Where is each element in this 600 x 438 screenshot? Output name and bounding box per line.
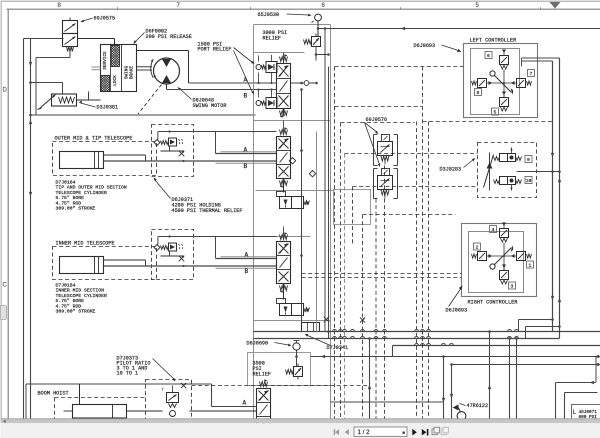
- dashed vline x422: [422, 67, 424, 421]
- svg-text:69J0575: 69J0575: [94, 16, 116, 22]
- flow arrow down 2: [29, 192, 32, 197]
- bus line y345: [393, 345, 600, 347]
- scrollbar left arrow: [3, 420, 6, 423]
- label OUTER MID & TIP TELESCOPE: [55, 136, 133, 142]
- svg-text:5.75" BORE: 5.75" BORE: [56, 298, 85, 304]
- revision triangle marker: [550, 2, 561, 9]
- wire vline x443: [442, 355, 445, 420]
- wire vline x301: [300, 90, 303, 323]
- valve D3J0283 upper: [494, 154, 522, 162]
- D3J0283 lever: [484, 153, 494, 191]
- dashed hline y122: [341, 122, 415, 124]
- hatch service: [90, 46, 161, 67]
- dashed vline x375: [375, 199, 377, 421]
- label INNER MID TELESCOPE: [56, 241, 115, 247]
- arrow down x552 b: [551, 296, 554, 301]
- wire D3J0283 out: [517, 170, 561, 173]
- wire vline x451: [450, 363, 453, 420]
- svg-text:LEFT CONTROLLER: LEFT CONTROLLER: [470, 38, 517, 44]
- svg-text:5.75" BORE: 5.75" BORE: [56, 195, 85, 201]
- swing brake body: [101, 45, 137, 92]
- svg-text:PORT RELIEF: PORT RELIEF: [198, 47, 232, 53]
- grey pair tele2 B: [216, 267, 277, 269]
- svg-text:D7J0184: D7J0184: [56, 283, 76, 289]
- wire boom A: [212, 406, 257, 408]
- viewer left edge line: [0, 2, 2, 419]
- svg-text:1 / 2: 1 / 2: [358, 429, 371, 436]
- dashed box boom: [55, 398, 146, 421]
- wire brake to motor: [137, 67, 153, 70]
- svg-text:BOOM HOIST: BOOM HOIST: [38, 391, 69, 397]
- boom holding valve D7J0373: [162, 383, 187, 417]
- wire nested corner 1: [556, 381, 596, 421]
- drawing frame left border: [7, 9, 9, 418]
- zone number 8: [58, 3, 62, 9]
- svg-text:65J0530: 65J0530: [258, 12, 280, 18]
- svg-text:D6J0693: D6J0693: [446, 308, 468, 314]
- svg-text:INNER MID SECTION: INNER MID SECTION: [56, 288, 105, 294]
- arrow down x552: [551, 153, 554, 158]
- label LEFT CONTROLLER: [470, 38, 517, 44]
- svg-text:5: 5: [494, 110, 497, 116]
- svg-text:1: 1: [529, 263, 532, 269]
- port box 1: [527, 261, 534, 269]
- toolbar last button: [422, 429, 429, 436]
- dashed hline y153: [345, 153, 478, 155]
- bracket 69J0576 upper: [374, 135, 398, 166]
- svg-text:A: A: [244, 147, 248, 154]
- svg-text:TELESCOPE CYLINDER: TELESCOPE CYLINDER: [56, 190, 107, 196]
- svg-text:TIP AND OUTER MID SECTION: TIP AND OUTER MID SECTION: [56, 185, 127, 191]
- left controller inner box: [471, 49, 520, 115]
- wire hline y54: [315, 53, 330, 56]
- wire D3J0381 to brake: [77, 92, 101, 101]
- label B swing: [244, 93, 248, 100]
- label D6J0690: [247, 341, 292, 347]
- port box 10: [525, 177, 532, 185]
- wire brake right to A: [137, 51, 189, 84]
- relief box: [254, 52, 305, 54]
- wire tele1 B line: [104, 160, 277, 162]
- label 69J0575: [81, 16, 116, 23]
- wire hline y401: [331, 401, 444, 403]
- wire y364: [452, 363, 600, 366]
- bus line y338: [254, 338, 560, 340]
- holding valve D6J0371 upper: [154, 138, 183, 146]
- label A swing: [244, 77, 248, 84]
- wire tank return y114: [29, 114, 255, 117]
- label D3J0283: [440, 158, 476, 173]
- svg-text:10: 10: [526, 178, 532, 184]
- svg-text:B: B: [244, 93, 248, 100]
- label B tele2: [245, 268, 249, 275]
- wire tele2 A line: [216, 258, 277, 260]
- wire y356 far right: [444, 356, 600, 358]
- wire boom top line: [26, 384, 212, 407]
- wire vline x369: [368, 337, 371, 420]
- wire vline x516: [515, 337, 518, 420]
- flow arrow up: [29, 120, 32, 125]
- label 1500 PSI PORT RELIEF: [198, 42, 255, 95]
- zone number 6: [322, 3, 326, 9]
- line hop marks: [333, 330, 519, 346]
- svg-text:SWING MOTOR: SWING MOTOR: [193, 103, 227, 109]
- valve bank section line y236: [254, 236, 311, 238]
- port box 8: [475, 89, 482, 97]
- wire valve to brake: [70, 39, 115, 58]
- valve 69J0575: [63, 18, 78, 56]
- dashed box holding valve 1: [152, 125, 194, 177]
- wire gauge down: [317, 21, 320, 37]
- svg-text:47R6122: 47R6122: [467, 403, 489, 409]
- wire rc to bus: [519, 318, 561, 338]
- wire vline x324: [324, 27, 327, 331]
- svg-text:D3J0283: D3J0283: [440, 167, 462, 173]
- dashed vline x362: [362, 215, 364, 421]
- holding valve D6J0371 lower: [154, 243, 183, 251]
- X mark tele1: [179, 151, 185, 157]
- svg-text:RIGHT CONTROLLER: RIGHT CONTROLLER: [468, 300, 518, 306]
- dashed hline y385 boom pilot: [192, 385, 370, 387]
- wire boom rod line: [127, 410, 257, 412]
- port box 6: [485, 52, 492, 60]
- wire swing spool links: [282, 53, 285, 117]
- wire to D3J0381: [31, 83, 63, 94]
- label D6J0371: [154, 178, 243, 215]
- svg-text:6: 6: [487, 53, 490, 59]
- label B tele1: [244, 163, 248, 170]
- svg-text:RELIEF: RELIEF: [263, 35, 282, 41]
- cylinder D7J0184 inner: [60, 257, 146, 274]
- cylinder boom: [64, 405, 127, 419]
- pilot check block 2: [277, 299, 310, 316]
- wire vline x552: [552, 61, 554, 332]
- label SERVICE: [103, 51, 108, 70]
- pilot check block 1: [277, 192, 310, 209]
- wire 3500 line y356: [311, 355, 393, 358]
- wire left vertical line x23: [23, 39, 25, 419]
- right controller inner box: [469, 232, 524, 293]
- label D6J0693 left: [414, 43, 462, 52]
- dashed box D3J0283: [478, 143, 537, 198]
- anchor symbol 47R6122: [453, 405, 466, 421]
- arrow up x559 b: [558, 298, 561, 303]
- port box 3: [509, 282, 516, 290]
- port box 9: [525, 156, 532, 164]
- wire D6J0690 down: [295, 350, 298, 366]
- svg-text:309.00" STROKE: 309.00" STROKE: [56, 309, 96, 315]
- svg-text:3: 3: [511, 284, 514, 290]
- svg-text:B: B: [245, 268, 249, 275]
- X mark tele2: [179, 256, 185, 262]
- svg-text:200 PSI RELEASE: 200 PSI RELEASE: [146, 34, 192, 40]
- wire left vertical line x30: [30, 39, 32, 419]
- dashed hline y186: [353, 186, 478, 188]
- grey box mid: [334, 190, 371, 225]
- svg-text:RELIEF: RELIEF: [253, 372, 272, 378]
- wire vline x328: [327, 67, 330, 339]
- svg-text:4500 PSI THERMAL RELIEF: 4500 PSI THERMAL RELIEF: [172, 208, 243, 214]
- label 69J0576: [365, 117, 388, 167]
- wire x25 boom: [25, 384, 27, 419]
- valve bank grey line y190: [256, 190, 335, 192]
- viewer side tab: [1, 306, 7, 320]
- hatch lock: [85, 76, 139, 92]
- svg-text:10 TO 1: 10 TO 1: [117, 371, 139, 377]
- dashed hline y121 controller box: [423, 121, 554, 123]
- dashed vline x340: [340, 123, 342, 421]
- port box 2: [474, 243, 481, 251]
- wire swing A line: [189, 82, 277, 84]
- grey pair tele2 A: [221, 256, 277, 258]
- toolbar background: [1, 423, 600, 438]
- X mark pilot: [360, 317, 365, 322]
- toolbar prev button: [345, 429, 349, 435]
- label 47R6122: [460, 403, 489, 409]
- spool valve tele1: [277, 127, 291, 187]
- relief box 3500: [248, 353, 311, 386]
- wire tele1 spool links: [282, 121, 285, 193]
- toolbar pages icon 1: [432, 427, 439, 434]
- solenoid valve 69J0576 upper: [378, 135, 393, 165]
- svg-text:4: 4: [492, 227, 495, 233]
- dashed box inner telescope: [53, 247, 157, 280]
- valve bank section line y385: [248, 385, 331, 387]
- dashed box boom holding: [146, 380, 192, 421]
- wire vline x595: [595, 357, 597, 383]
- dashed vline x334: [334, 67, 336, 421]
- spool valve boom: [257, 379, 271, 438]
- wire long top line: [319, 27, 600, 30]
- spool valve swing: [277, 54, 291, 117]
- dashed vline x416: [416, 122, 418, 421]
- grey pair tele1 B: [216, 162, 277, 164]
- swing motor D6J0648: [154, 58, 180, 84]
- wire vline x509: [508, 337, 511, 420]
- port box 7: [528, 70, 535, 78]
- label D7J0341: [305, 334, 349, 351]
- label A boom: [243, 400, 247, 407]
- svg-text:W: W: [306, 308, 309, 314]
- text block D7J0184 inner: [56, 283, 107, 315]
- wire top-left horizontal: [24, 38, 64, 40]
- brake piston rod: [92, 67, 101, 70]
- relief valve 3000psi: [304, 34, 321, 50]
- dashed vline x352: [352, 187, 354, 246]
- label SWING BRAKE: [125, 66, 135, 80]
- label D7J0373: [117, 356, 176, 382]
- svg-text:4.75" ROD: 4.75" ROD: [56, 200, 82, 206]
- dashed box holding valve 2: [152, 230, 194, 280]
- label D6F0002 200 PSI RELEASE: [134, 29, 192, 45]
- svg-text:LOCK: LOCK: [113, 75, 118, 86]
- arrow into y356: [595, 355, 600, 358]
- valve bank section line y120: [254, 120, 331, 122]
- wire tele2 B line: [104, 265, 277, 267]
- valve bank section line y320: [254, 320, 331, 322]
- viewer top edge line: [1, 0, 600, 2]
- joystick right: [472, 223, 532, 285]
- check circle swing: [291, 81, 318, 91]
- svg-text:D: D: [3, 88, 8, 94]
- svg-text:8: 8: [477, 90, 480, 96]
- wire tele2 spool links: [282, 227, 285, 300]
- bus line y331: [254, 331, 600, 333]
- svg-text:309.00" STROKE: 309.00" STROKE: [56, 206, 96, 212]
- valve bank outer box: [254, 25, 331, 419]
- wire tele2 top pipe: [158, 235, 277, 258]
- spool valve tele2: [277, 232, 291, 292]
- svg-text:SERVICE: SERVICE: [103, 51, 108, 70]
- svg-text:7: 7: [530, 71, 533, 77]
- svg-text:BRAKE: BRAKE: [130, 66, 135, 80]
- label RIGHT CONTROLLER: [468, 300, 518, 306]
- port relief swing B: [256, 98, 277, 109]
- toolbar pages icon 2: [441, 427, 448, 434]
- dashed vline x384: [384, 166, 386, 421]
- scrollbar strip: [1, 419, 600, 423]
- check valve diamond 1: [289, 158, 295, 164]
- wire tele1 top pipe: [158, 130, 277, 153]
- zone number 5: [476, 3, 480, 9]
- dashed hline y273: [302, 273, 462, 275]
- label D6J0648 SWING MOTOR: [178, 87, 227, 109]
- toolbar next button: [412, 429, 417, 436]
- svg-text:C: C: [3, 283, 8, 289]
- flow arrow down: [29, 62, 32, 67]
- label LOCK: [113, 75, 118, 86]
- right controller outer box: [462, 224, 537, 297]
- motor rotation arrows: [151, 59, 157, 78]
- zone letter C: [3, 283, 8, 289]
- svg-text:D3J0381: D3J0381: [97, 105, 119, 111]
- junction dot: [29, 81, 32, 84]
- solenoid valve 69J0576 lower: [378, 169, 393, 199]
- svg-text:A: A: [243, 400, 247, 407]
- wire vline x489: [488, 330, 491, 420]
- relief valve 3500psi: [286, 364, 303, 380]
- label 65J0530: [258, 12, 312, 18]
- joystick left: [472, 50, 532, 112]
- text block D7J0184 outer: [56, 180, 127, 212]
- wire motor to B: [138, 84, 167, 114]
- wire tele1 A line: [216, 153, 277, 155]
- circle D6J0690: [293, 341, 300, 351]
- wire nested corner 2: [565, 393, 598, 421]
- svg-text:OUTER MID & TIP TELESCOPE: OUTER MID & TIP TELESCOPE: [55, 136, 133, 142]
- wire swing B line: [167, 89, 277, 91]
- label 3000 PSI RELIEF: [263, 30, 288, 41]
- label A tele1: [244, 147, 248, 154]
- dashed vline x428: [428, 122, 430, 421]
- zone number 7: [177, 3, 181, 9]
- svg-text:INNER MID TELESCOPE: INNER MID TELESCOPE: [56, 241, 115, 247]
- label A tele2: [245, 252, 249, 259]
- grey pair tele1 A: [221, 151, 277, 153]
- svg-text:2: 2: [476, 245, 479, 251]
- arrow up x559: [558, 178, 561, 183]
- left controller outer box: [464, 44, 538, 118]
- port box 4: [490, 226, 497, 234]
- valve D7J0341: [302, 317, 330, 332]
- dashed hline y66: [335, 66, 464, 68]
- svg-text:TELESCOPE CYLINDER: TELESCOPE CYLINDER: [56, 293, 107, 299]
- gauge 65J0530: [312, 14, 322, 22]
- valve D3J0381: [38, 94, 77, 110]
- port relief swing A: [256, 62, 277, 73]
- dashed vline x344: [344, 154, 346, 421]
- label 3500 PSI RELIEF: [253, 361, 272, 378]
- toolbar page box: [354, 427, 407, 436]
- cylinder D7J0184 outer: [60, 152, 146, 169]
- bracket 69J0576 lower: [374, 169, 398, 199]
- wire vline x312 grey: [316, 132, 318, 332]
- wire vline x559: [559, 58, 561, 339]
- relief box 48J0071: [572, 405, 600, 421]
- drawing frame top border: [7, 8, 600, 10]
- dashed box outer telescope: [53, 142, 157, 176]
- svg-text:A: A: [245, 252, 249, 259]
- wire x35 vertical: [36, 58, 70, 116]
- zone letter D: [3, 88, 8, 94]
- zone tick marks: [118, 7, 541, 9]
- dashed hline y277: [302, 277, 462, 279]
- svg-text:D6J0693: D6J0693: [414, 43, 436, 49]
- label D6J0693 right: [446, 286, 468, 314]
- svg-text:B: B: [244, 163, 248, 170]
- svg-text:9: 9: [527, 157, 530, 163]
- svg-text:4.75" ROD: 4.75" ROD: [56, 303, 82, 309]
- toolbar first page button: [334, 429, 339, 435]
- wire relief down: [315, 50, 317, 61]
- dashed hline y106: [335, 106, 423, 108]
- wire controller out right: [522, 58, 560, 67]
- svg-text:D6J0690: D6J0690: [247, 341, 269, 347]
- check valve diamond 2: [309, 171, 315, 177]
- wire y356 right: [393, 356, 444, 358]
- bus step: [392, 346, 394, 357]
- dashed hline y214: [363, 214, 456, 216]
- valve D3J0283 lower: [494, 177, 522, 185]
- label D3J0381: [79, 101, 119, 111]
- svg-text:W: W: [306, 201, 309, 207]
- wire swing relief links: [257, 55, 272, 98]
- D3J0283 arrows: [510, 148, 512, 191]
- label BOOM HOIST: [38, 391, 69, 397]
- svg-text:D7J0184: D7J0184: [56, 180, 76, 186]
- port box 5: [492, 108, 499, 116]
